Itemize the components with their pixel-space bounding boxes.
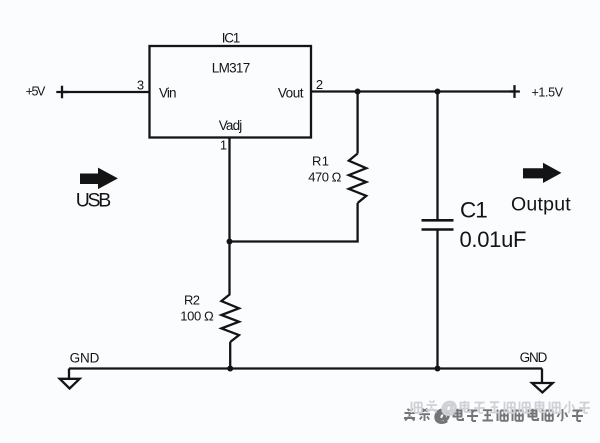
- svg-text:IC1: IC1: [222, 31, 241, 46]
- svg-text:Vout: Vout: [278, 86, 304, 101]
- svg-text:Vin: Vin: [159, 86, 177, 101]
- junction Vadj/R1/R2: [227, 239, 233, 245]
- wire pin 2 (Vout) to +1.5V terminal: [311, 90, 515, 92]
- svg-text:470 Ω: 470 Ω: [308, 170, 341, 185]
- svg-text:Output: Output: [511, 194, 571, 216]
- svg-text:@: @: [441, 400, 457, 417]
- svg-text:+1.5V: +1.5V: [532, 86, 564, 100]
- resistor R2: [221, 294, 239, 342]
- svg-text:R1: R1: [312, 154, 329, 169]
- svg-text:3: 3: [137, 78, 144, 93]
- wire C1 bottom: [436, 230, 438, 369]
- wire R1 bottom: [230, 203, 358, 242]
- svg-text:USB: USB: [76, 190, 112, 212]
- wire ground rail: [69, 367, 542, 369]
- IC U1 LM317 body: [150, 46, 312, 138]
- svg-text:R2: R2: [184, 293, 200, 308]
- svg-text:2: 2: [316, 77, 323, 92]
- svg-text:+5V: +5V: [26, 85, 46, 99]
- svg-text:1: 1: [220, 138, 227, 153]
- power terminal +1.5V: [510, 85, 520, 98]
- ground symbol left: [60, 369, 80, 389]
- junction Vout/C1: [435, 89, 441, 95]
- svg-text:Vadj: Vadj: [219, 118, 243, 133]
- wire Vadj pin 1 down: [228, 138, 230, 295]
- svg-text:LM317: LM317: [212, 61, 251, 76]
- svg-text:100 Ω: 100 Ω: [180, 309, 214, 324]
- USB arrow icon: [80, 168, 118, 190]
- svg-text:C1: C1: [460, 198, 487, 223]
- svg-text:GND: GND: [70, 351, 100, 366]
- wire +5V to pin 3 (Vin): [62, 91, 150, 93]
- ground symbol right: [532, 369, 553, 393]
- wire R2 bottom: [229, 342, 231, 369]
- watermark dark "头条 @电子工程师助理小七": [404, 408, 583, 425]
- junction R2/ground rail: [227, 366, 233, 372]
- capacitor C1: [422, 220, 454, 229]
- power terminal +5V: [56, 86, 68, 99]
- svg-text:GND: GND: [520, 350, 548, 365]
- wire R1 top: [356, 92, 358, 154]
- svg-text:0.01uF: 0.01uF: [460, 227, 527, 252]
- junction C1/ground rail: [435, 366, 441, 372]
- junction Vout/R1: [355, 89, 361, 95]
- watermark light "知乎 @电子工程师助理小七": [412, 400, 591, 417]
- wire C1 top: [436, 92, 438, 221]
- resistor R1: [349, 154, 367, 204]
- Output arrow icon: [523, 163, 562, 183]
